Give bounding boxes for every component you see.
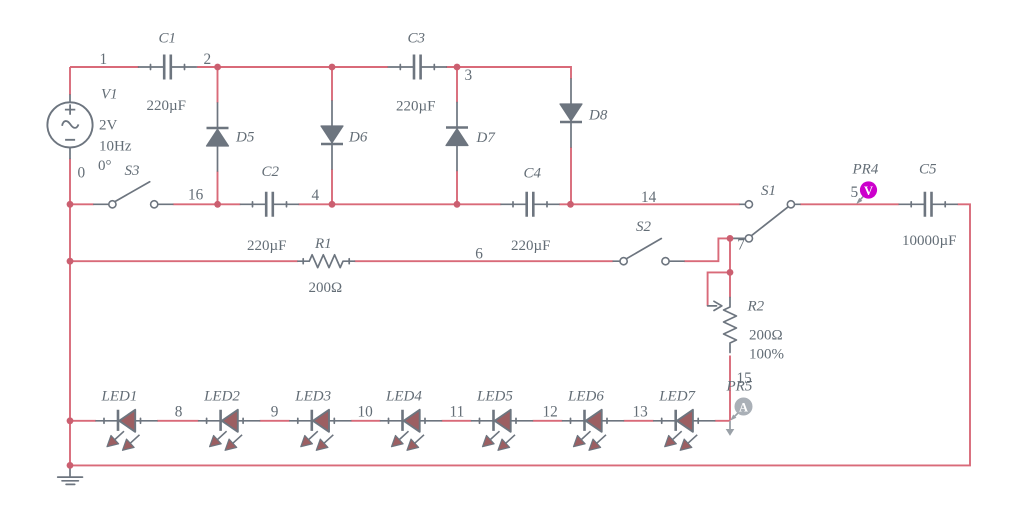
- svg-text:C2: C2: [262, 164, 280, 180]
- svg-text:D6: D6: [348, 130, 368, 146]
- svg-text:C1: C1: [159, 31, 177, 47]
- svg-text:PR4: PR4: [852, 162, 879, 178]
- svg-text:10: 10: [358, 404, 374, 421]
- svg-text:C5: C5: [919, 162, 937, 178]
- svg-text:LED5: LED5: [476, 389, 513, 405]
- svg-text:LED1: LED1: [101, 389, 138, 405]
- svg-text:R1: R1: [314, 236, 332, 252]
- svg-text:LED6: LED6: [567, 389, 604, 405]
- svg-text:16: 16: [188, 186, 204, 203]
- svg-text:12: 12: [543, 404, 558, 421]
- svg-text:220µF: 220µF: [511, 238, 551, 254]
- svg-text:V: V: [864, 184, 873, 198]
- svg-text:2: 2: [204, 51, 212, 68]
- svg-text:220µF: 220µF: [147, 98, 187, 114]
- svg-text:220µF: 220µF: [396, 99, 436, 115]
- svg-text:D5: D5: [235, 130, 255, 146]
- svg-text:9: 9: [271, 404, 279, 421]
- svg-text:3: 3: [465, 67, 473, 84]
- svg-text:LED7: LED7: [658, 389, 696, 405]
- svg-text:S3: S3: [125, 163, 140, 179]
- svg-text:C4: C4: [524, 166, 542, 182]
- svg-text:LED3: LED3: [294, 389, 331, 405]
- svg-text:S2: S2: [636, 219, 652, 235]
- svg-text:7: 7: [737, 236, 745, 253]
- svg-text:4: 4: [312, 187, 320, 204]
- svg-text:13: 13: [633, 404, 649, 421]
- svg-text:D7: D7: [476, 130, 497, 146]
- svg-text:14: 14: [641, 189, 657, 206]
- svg-text:6: 6: [475, 245, 483, 262]
- svg-text:10Hz: 10Hz: [99, 139, 132, 155]
- svg-text:220µF: 220µF: [247, 238, 287, 254]
- svg-text:1: 1: [100, 51, 108, 68]
- svg-text:D8: D8: [588, 108, 608, 124]
- svg-text:V1: V1: [101, 87, 118, 103]
- svg-text:5: 5: [851, 184, 859, 201]
- svg-text:0°: 0°: [98, 158, 112, 174]
- svg-text:A: A: [739, 401, 748, 415]
- svg-text:S1: S1: [761, 183, 776, 199]
- svg-text:100%: 100%: [749, 347, 784, 363]
- svg-text:8: 8: [175, 404, 183, 421]
- svg-text:LED4: LED4: [385, 389, 422, 405]
- svg-text:11: 11: [450, 404, 465, 421]
- svg-text:200Ω: 200Ω: [309, 280, 343, 296]
- svg-text:C3: C3: [408, 31, 426, 47]
- svg-text:200Ω: 200Ω: [749, 328, 783, 344]
- svg-text:LED2: LED2: [203, 389, 240, 405]
- svg-text:0: 0: [78, 165, 86, 182]
- svg-text:2V: 2V: [99, 118, 118, 134]
- svg-text:10000µF: 10000µF: [902, 233, 957, 249]
- svg-text:R2: R2: [747, 299, 765, 315]
- svg-text:15: 15: [737, 370, 753, 387]
